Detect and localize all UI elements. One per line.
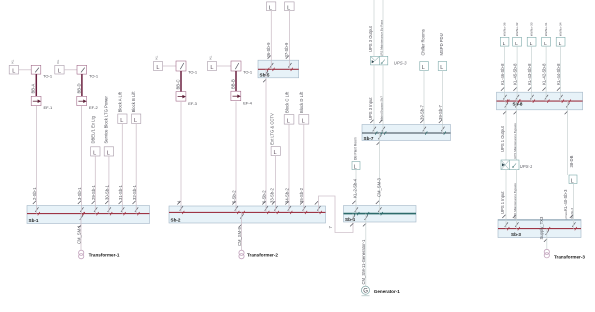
svg-text:kW/No-32: kW/No-32 [515, 22, 519, 36]
wire KL-45-Sb-8 [513, 46, 518, 92]
svg-text:L: L [530, 41, 533, 47]
load Block A Lift [117, 91, 127, 124]
svg-text:Block B Lift: Block B Lift [131, 91, 136, 113]
svg-text:UPS 1 Output: UPS 1 Output [500, 125, 505, 152]
svg-text:KL-40-Sb-3: KL-40-Sb-3 [563, 189, 568, 211]
svg-text:L: L [274, 150, 277, 156]
svg-text:34-Sb-2: 34-Sb-2 [285, 187, 290, 203]
svg-text:Service Block LTG Power: Service Block LTG Power [104, 95, 109, 143]
svg-text:BB-D: BB-D [77, 83, 82, 93]
svg-text:G: G [363, 288, 368, 294]
busbar Sb-4 [344, 206, 417, 223]
svg-text:UPS-1: UPS-1 [520, 164, 533, 169]
busway BB-D [77, 74, 82, 96]
svg-text:39-Sb-7: 39-Sb-7 [438, 104, 443, 120]
svg-text:L: L [440, 65, 443, 71]
svg-text:KL-44-Sb-8: KL-44-Sb-8 [556, 63, 561, 85]
wire UPS maintenance bypass lower [379, 65, 383, 125]
load 38-DB [569, 175, 577, 184]
svg-text:Supply_TX3: Supply_TX3 [539, 216, 544, 239]
fuse EF-2 [77, 96, 99, 110]
svg-text:L: L [302, 119, 305, 125]
svg-text:L: L [93, 151, 96, 157]
switch TO-1 fourth [231, 61, 253, 75]
wire [64, 69, 77, 71]
UPS U3 [371, 56, 408, 65]
fuse EF-3 [176, 92, 198, 106]
node KL-23 label [155, 55, 159, 59]
svg-text:TO-1: TO-1 [243, 70, 253, 75]
wire 38-DB feed [568, 110, 574, 175]
fuse EF-4 [231, 91, 253, 105]
svg-text:37-Sb-9: 37-Sb-9 [284, 42, 289, 58]
load KL-44 [556, 37, 565, 47]
svg-text:L: L [287, 119, 290, 125]
load Block C Lift [284, 91, 294, 125]
svg-text:L: L [120, 118, 123, 124]
svg-text:35-Sb-2: 35-Sb-2 [299, 187, 304, 203]
svg-text:39-Sb-7: 39-Sb-7 [420, 104, 425, 120]
svg-text:L: L [12, 68, 15, 74]
busway BB-C [176, 71, 181, 92]
svg-text:UPS Maintenance By Pass: UPS Maintenance By Pass [379, 19, 383, 57]
svg-text:L: L [515, 41, 518, 47]
wire UPS maintenance bypass right lower [513, 170, 517, 220]
svg-text:6-Sb-2: 6-Sb-2 [262, 190, 267, 203]
svg-text:L: L [210, 65, 213, 71]
wire CM_SM-11-Generator-1 [361, 222, 366, 286]
svg-text:UPS 1 Input: UPS 1 Input [500, 191, 505, 214]
svg-text:KL: KL [56, 59, 60, 63]
svg-text:29-Sb-1: 29-Sb-1 [91, 184, 96, 200]
wire 3-Sb-1 [77, 106, 82, 206]
load L6 top [285, 2, 295, 12]
svg-text:Chiller Rooms: Chiller Rooms [421, 29, 426, 55]
fuse EF-1 [31, 96, 53, 110]
svg-text:L: L [559, 41, 562, 47]
svg-text:38-DB: 38-DB [569, 155, 574, 167]
load L4 [208, 62, 217, 71]
load L2 [55, 65, 64, 74]
svg-text:kW/No-33: kW/No-33 [529, 22, 533, 36]
transformer Transformer-1 [79, 250, 120, 259]
wire KL-2-Sb-4 [353, 170, 358, 206]
svg-text:KL-46-Sb-8: KL-46-Sb-8 [500, 63, 505, 85]
svg-text:TO-1: TO-1 [89, 74, 99, 79]
svg-text:kW/No-36: kW/No-36 [502, 22, 506, 36]
load DB Plant Room [352, 137, 360, 171]
wire KL-46-Sb-8 [500, 46, 505, 92]
svg-text:EF-4: EF-4 [243, 101, 252, 106]
load Service Block LTG Power [104, 95, 114, 156]
breaker marks Sb-1 top [33, 201, 138, 228]
breaker marks Sb-2 top [177, 201, 320, 227]
svg-text:2-Sb-1: 2-Sb-1 [32, 187, 37, 200]
svg-text:L: L [58, 68, 61, 74]
bus ticks Sb-2 [182, 211, 322, 214]
bus ticks Sb-5 [267, 68, 293, 71]
bus ticks Sb-1 [38, 212, 140, 215]
breaker marks Sb-4 [350, 201, 381, 227]
wire [163, 65, 177, 67]
load KL-45 [513, 37, 522, 47]
wire 33-Sb-2 [270, 156, 276, 207]
wire 29-Sb-1 [91, 156, 96, 206]
svg-text:L: L [107, 151, 110, 157]
wire 36-Sb-9 [266, 11, 271, 61]
wire 37-Sb-9 [284, 11, 289, 61]
svg-text:KL-42-Sb-8: KL-42-Sb-8 [542, 63, 547, 85]
wire 34-Sb-2 [285, 124, 290, 206]
node KL-27 label [209, 55, 213, 59]
wire 32-Sb-1 [132, 124, 137, 206]
svg-text:L: L [156, 65, 159, 71]
svg-text:Transformer-2: Transformer-2 [247, 253, 278, 258]
node kW labels right [502, 22, 562, 36]
switch TO-1 third [176, 61, 198, 75]
load MSPD PDU [438, 33, 447, 71]
busbar Sb-2 [169, 206, 326, 223]
wire 39-Sb-7 second [438, 71, 443, 125]
svg-text:Transformer-3: Transformer-3 [554, 254, 585, 259]
wire UPS 1 Input [500, 170, 506, 220]
busbar Sb-5 [258, 60, 299, 78]
svg-text:Generator-1: Generator-1 [374, 289, 400, 294]
wire 35-Sb-2 [299, 124, 304, 206]
wire 31-Sb-1 [118, 124, 123, 206]
svg-text:DBEL/1 Ex Ltg: DBEL/1 Ex Ltg [91, 115, 96, 143]
bus ticks Sb-3 [507, 227, 577, 230]
svg-text:Maint Bypass Sb7: Maint Bypass Sb7 [379, 96, 383, 121]
transformer Transformer-2 [239, 250, 278, 259]
wire UPS maintenance bypass upper [379, 0, 383, 57]
svg-text:Block C Lift: Block C Lift [284, 91, 289, 113]
load Ext LTG &amp; CCTV [270, 113, 281, 156]
wire stubs Sb-2 [181, 206, 319, 223]
svg-text:Block A Lift: Block A Lift [117, 91, 122, 112]
svg-text:EF-2: EF-2 [89, 105, 98, 110]
wire stubs Sb-4 [353, 206, 380, 223]
load KL-43 [527, 37, 536, 47]
svg-text:L: L [544, 41, 547, 47]
svg-text:MSPD PDU: MSPD PDU [439, 33, 444, 55]
svg-text:BB-A: BB-A [31, 84, 36, 94]
switch TO-1 second [77, 65, 99, 78]
wire KL-42-Sb-8 [542, 46, 547, 92]
node KL-8 label [56, 59, 60, 63]
svg-text:UPS 3 Output: UPS 3 Output [368, 25, 373, 52]
svg-text:KL-43-Sb-8: KL-43-Sb-8 [527, 63, 532, 85]
load Block D Lift [299, 91, 309, 125]
svg-text:CM_SM-11-Generator-1: CM_SM-11-Generator-1 [361, 239, 366, 285]
svg-text:36-Sb-9: 36-Sb-9 [266, 42, 271, 58]
node KL-2 label [11, 59, 15, 63]
wire 6-Sb-2 [262, 78, 267, 206]
wire CM_SM-1 [76, 224, 81, 251]
svg-text:5-Sb-2: 5-Sb-2 [232, 190, 237, 203]
svg-text:L: L [422, 65, 425, 71]
busbar Sb-7 [362, 125, 451, 141]
svg-text:BB-C: BB-C [176, 79, 181, 89]
wire [217, 65, 232, 67]
load KL-42 [542, 37, 551, 47]
load L1 [9, 65, 18, 74]
wire 39-Sb-7 [420, 71, 425, 125]
svg-text:KL-45-Sb-8: KL-45-Sb-8 [513, 63, 518, 85]
load L5 top [267, 2, 276, 12]
svg-text:Transformer-1: Transformer-1 [89, 253, 120, 258]
svg-text:kW/No-34: kW/No-34 [558, 22, 562, 36]
svg-text:kW/No-31: kW/No-31 [544, 22, 548, 36]
svg-text:EF-3: EF-3 [188, 101, 197, 106]
busbar Sb-3 [498, 220, 581, 238]
UPS U1 [501, 160, 533, 170]
wire CM_SM-3 [376, 141, 381, 206]
wire [19, 69, 32, 71]
busbar Sb-1 [27, 206, 150, 224]
svg-text:UPS-3: UPS-3 [394, 60, 407, 65]
load DBEL/1 Ex Ltg [91, 115, 100, 156]
svg-text:KL: KL [155, 55, 159, 59]
svg-text:UPS Maintenance Bypass: UPS Maintenance Bypass [513, 183, 517, 219]
bus ticks Sb-7 [375, 131, 446, 134]
svg-text:Block D Lift: Block D Lift [299, 91, 304, 113]
bus ticks Sb-4 [354, 212, 383, 215]
wire UPS 3 Output [368, 0, 374, 56]
svg-text:L: L [134, 118, 137, 124]
wire stubs Sb-8 [505, 92, 568, 110]
svg-text:TO-1: TO-1 [43, 74, 53, 79]
load Block B Lift [131, 91, 141, 124]
svg-text:CM_SM-1: CM_SM-1 [76, 224, 81, 244]
wire UPS 3 Input [368, 65, 374, 125]
svg-text:Sb-7: Sb-7 [364, 136, 374, 141]
svg-text:Sb-2: Sb-2 [171, 218, 181, 223]
bus ticks Sb-8 [506, 100, 571, 103]
svg-text:Sb-4: Sb-4 [345, 217, 355, 222]
svg-text:DB Plant Room: DB Plant Room [353, 137, 357, 160]
svg-text:L: L [503, 41, 506, 47]
wire stubs Sb-3 [506, 220, 574, 238]
wire KL-43-Sb-8 [527, 46, 532, 92]
svg-text:30-Sb-1: 30-Sb-1 [105, 184, 110, 200]
svg-text:CM_SM-3: CM_SM-3 [376, 177, 381, 197]
breaker marks Sb-5 [263, 56, 291, 83]
generator Generator-1 [361, 286, 400, 296]
wire 2-Sb-1 [32, 106, 37, 206]
busway BB-B [231, 71, 236, 92]
wire CM_SM-5 [237, 223, 242, 250]
svg-text:7: 7 [328, 226, 333, 229]
svg-text:EF-1: EF-1 [44, 105, 53, 110]
load L3 [154, 62, 163, 71]
wire UPS 1 Output [500, 110, 506, 160]
svg-text:31-Sb-1: 31-Sb-1 [118, 184, 123, 200]
switch TO-1 [31, 65, 53, 78]
wire 7 tie Sb-2 to Sb-4 [319, 196, 354, 233]
busbar Sb-8 [497, 92, 583, 110]
svg-text:BB-B: BB-B [231, 79, 236, 89]
svg-text:KL: KL [11, 59, 15, 63]
busway BB-A [31, 74, 37, 96]
wire 4 [177, 102, 182, 206]
svg-text:33-Sb-2: 33-Sb-2 [270, 187, 275, 203]
wire stubs Sb-1 [37, 206, 137, 224]
svg-text:Sb-1: Sb-1 [29, 218, 39, 223]
svg-text:KL: KL [209, 55, 213, 59]
svg-text:TO-1: TO-1 [188, 70, 198, 75]
transformer Transformer-3 [544, 249, 585, 259]
wire Supply_TX3 [539, 216, 547, 249]
svg-text:UPS 3 Input: UPS 3 Input [368, 97, 373, 120]
wire 5-Sb-2 [232, 102, 237, 207]
svg-text:UPS Maintenance Bypass: UPS Maintenance Bypass [513, 123, 517, 159]
svg-text:Ext LTG & CCTV: Ext LTG & CCTV [270, 113, 275, 145]
wire stubs Sb-7 [374, 125, 443, 141]
svg-text:3-Sb-1: 3-Sb-1 [77, 187, 82, 200]
svg-text:32-Sb-1: 32-Sb-1 [132, 184, 137, 200]
svg-text:Sb-3: Sb-3 [511, 232, 521, 237]
wire stubs Sb-5 [266, 60, 290, 78]
wire UPS maintenance bypass right upper [513, 110, 517, 160]
svg-text:CM_SM-5: CM_SM-5 [237, 226, 242, 246]
breaker marks Sb-3 [502, 215, 575, 242]
wire KL-40-Sb-3 [563, 184, 574, 229]
wire KL-44-Sb-8 [556, 46, 561, 92]
breaker marks Sb-7 [370, 120, 444, 145]
load Chiller Rooms [420, 29, 429, 71]
wire 30-Sb-1 [105, 156, 110, 206]
svg-text:KL-2-Sb-4: KL-2-Sb-4 [353, 178, 358, 198]
breaker marks Sb-8 [501, 88, 570, 115]
load KL-46 [500, 37, 509, 47]
